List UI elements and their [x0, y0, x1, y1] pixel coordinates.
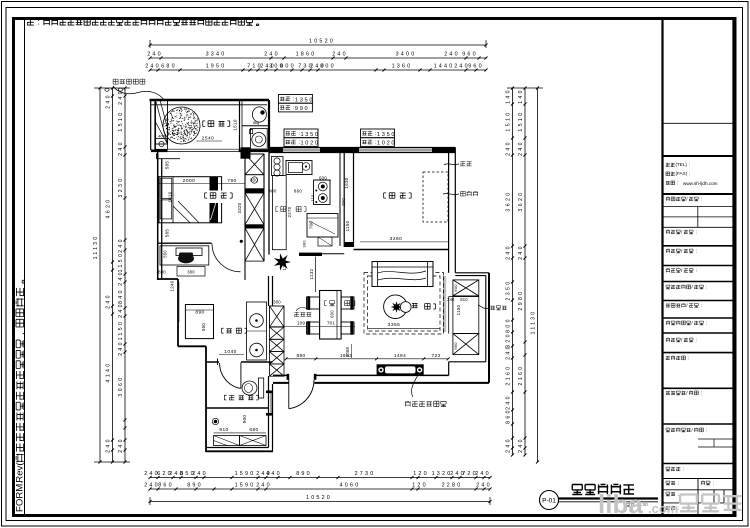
svg-text:11130: 11130: [531, 310, 537, 335]
svg-text:723: 723: [432, 353, 441, 359]
svg-text:860: 860: [294, 189, 302, 194]
svg-text:600: 600: [319, 176, 327, 181]
svg-text:910: 910: [219, 427, 228, 433]
svg-text:240: 240: [506, 344, 512, 360]
svg-text:585: 585: [165, 229, 170, 237]
svg-text:(FAX): (FAX): [675, 171, 687, 176]
svg-text:600: 600: [330, 310, 335, 318]
svg-text:800: 800: [280, 64, 296, 70]
svg-text:/: /: [681, 229, 683, 235]
svg-text:860: 860: [506, 408, 512, 424]
svg-text:3620: 3620: [506, 190, 512, 211]
svg-text:240: 240: [118, 270, 124, 286]
svg-text:109: 109: [297, 321, 305, 326]
svg-text:2270: 2270: [287, 206, 292, 217]
svg-text:701: 701: [327, 321, 335, 326]
svg-text:900: 900: [242, 415, 247, 424]
svg-text:/: /: [686, 196, 688, 202]
svg-text:2350: 2350: [506, 279, 512, 300]
svg-text:www.sh-ljdh.com: www.sh-ljdh.com: [683, 181, 718, 186]
svg-text:990: 990: [295, 106, 309, 112]
svg-text:1240: 1240: [170, 280, 175, 291]
svg-text:240: 240: [506, 140, 512, 156]
svg-text:1484: 1484: [394, 353, 406, 359]
svg-text:1630: 1630: [344, 177, 349, 188]
svg-text:950: 950: [201, 323, 206, 331]
svg-text:3355: 3355: [388, 322, 401, 328]
svg-text:240: 240: [476, 483, 492, 489]
svg-text:240: 240: [256, 483, 272, 489]
svg-text:860: 860: [158, 483, 174, 489]
svg-text:3400: 3400: [396, 52, 417, 58]
svg-text:890: 890: [187, 483, 203, 489]
svg-text:800: 800: [158, 270, 166, 275]
svg-text:2160: 2160: [506, 364, 512, 385]
svg-text:1950: 1950: [206, 64, 227, 70]
svg-text:120: 120: [412, 483, 428, 489]
svg-text:1440: 1440: [434, 64, 455, 70]
svg-text:240: 240: [264, 52, 280, 58]
svg-text:890: 890: [195, 310, 204, 316]
svg-text:4140: 4140: [106, 361, 112, 382]
svg-text:550: 550: [163, 250, 168, 258]
svg-text:1020: 1020: [301, 141, 320, 147]
svg-text:240: 240: [118, 340, 124, 356]
svg-text:3260: 3260: [390, 236, 403, 242]
svg-text:/: /: [681, 248, 683, 254]
svg-text:840: 840: [118, 288, 124, 304]
svg-text:3320: 3320: [237, 202, 242, 213]
svg-text:960: 960: [468, 64, 484, 70]
svg-text:240: 240: [506, 244, 512, 260]
svg-text:2980: 2980: [518, 289, 524, 310]
svg-text:1088: 1088: [345, 346, 350, 357]
svg-text:/: /: [691, 284, 693, 290]
svg-text:/: /: [686, 303, 688, 309]
svg-text:400: 400: [158, 134, 165, 139]
svg-text:890: 890: [297, 353, 306, 359]
svg-text:2160: 2160: [518, 364, 524, 385]
svg-text:1510: 1510: [118, 110, 124, 131]
svg-text:1510: 1510: [233, 119, 238, 131]
svg-text:1150: 1150: [345, 220, 350, 231]
svg-text:600: 600: [453, 284, 458, 292]
svg-text:240: 240: [118, 302, 124, 318]
svg-text:380: 380: [302, 240, 307, 248]
svg-text:240: 240: [106, 437, 112, 453]
svg-text:700: 700: [309, 221, 314, 229]
svg-text:800: 800: [320, 64, 336, 70]
svg-text:300: 300: [187, 270, 195, 275]
svg-text:440: 440: [266, 471, 282, 477]
svg-text:200: 200: [341, 198, 346, 206]
svg-text:3060: 3060: [118, 375, 124, 396]
svg-text:240: 240: [518, 437, 524, 453]
svg-text:240: 240: [118, 437, 124, 453]
svg-text:240: 240: [475, 471, 491, 477]
svg-text:240: 240: [118, 237, 124, 253]
svg-text:FORM.: FORM.: [15, 481, 26, 512]
svg-text:1860: 1860: [296, 52, 317, 58]
svg-text:4620: 4620: [106, 197, 112, 218]
svg-text:1150: 1150: [118, 320, 124, 341]
svg-text:(TEL): (TEL): [675, 162, 687, 167]
svg-text:1350: 1350: [295, 98, 314, 104]
svg-text:240: 240: [118, 140, 124, 156]
svg-text:8kg: 8kg: [253, 121, 259, 125]
svg-text:300: 300: [273, 300, 281, 305]
svg-text:810: 810: [460, 297, 468, 302]
svg-text:240: 240: [518, 244, 524, 260]
svg-text:240: 240: [444, 52, 460, 58]
svg-text:140: 140: [506, 88, 512, 104]
svg-text:120: 120: [413, 471, 429, 477]
svg-text:1510: 1510: [518, 110, 524, 131]
svg-text:/: /: [686, 390, 688, 396]
svg-text:240: 240: [106, 93, 112, 109]
svg-text:240: 240: [147, 52, 163, 58]
svg-text:/: /: [691, 427, 693, 433]
svg-text:3340: 3340: [206, 52, 227, 58]
svg-text:680: 680: [161, 64, 177, 70]
svg-text:660: 660: [453, 342, 458, 350]
svg-text:Rev(: Rev(: [15, 462, 26, 483]
svg-text:240: 240: [332, 52, 348, 58]
svg-text:240: 240: [506, 437, 512, 453]
svg-text:960: 960: [462, 52, 478, 58]
svg-text:800: 800: [506, 317, 512, 333]
svg-text:1040: 1040: [224, 349, 237, 355]
svg-text:1590: 1590: [235, 471, 256, 477]
svg-text:240: 240: [145, 64, 161, 70]
svg-text:liba: liba: [598, 489, 643, 519]
svg-text:1350: 1350: [301, 132, 320, 138]
svg-text:115: 115: [310, 194, 315, 202]
svg-text:680: 680: [249, 427, 258, 433]
svg-text:11130: 11130: [93, 235, 99, 260]
svg-text:10520: 10520: [309, 39, 335, 45]
svg-text:1132: 1132: [309, 268, 314, 279]
svg-text:400: 400: [268, 189, 276, 194]
svg-text:3620: 3620: [518, 190, 524, 211]
svg-text:140: 140: [518, 88, 524, 104]
svg-text:240: 240: [447, 297, 455, 302]
svg-text:1150: 1150: [456, 304, 461, 315]
svg-text:4060: 4060: [340, 483, 361, 489]
svg-text:240: 240: [506, 394, 512, 410]
svg-text:/: /: [681, 268, 683, 274]
svg-text:3230: 3230: [118, 176, 124, 197]
svg-text:P-01: P-01: [542, 498, 556, 505]
svg-text:890: 890: [296, 471, 312, 477]
svg-text:1360: 1360: [392, 64, 413, 70]
svg-text:/: /: [691, 320, 693, 326]
svg-text:2730: 2730: [355, 471, 376, 477]
svg-text:240: 240: [192, 471, 208, 477]
svg-text:2540: 2540: [202, 136, 215, 142]
svg-text:1510: 1510: [506, 110, 512, 131]
svg-text:/: /: [681, 337, 683, 343]
svg-text:1250: 1250: [282, 259, 287, 270]
svg-text:240: 240: [106, 293, 112, 309]
svg-text:10520: 10520: [306, 495, 332, 501]
svg-text:1350: 1350: [377, 132, 396, 138]
svg-text:1020: 1020: [377, 141, 396, 147]
svg-text:2000: 2000: [183, 178, 196, 184]
svg-text:1590: 1590: [235, 483, 256, 489]
svg-text:790: 790: [227, 178, 236, 184]
svg-text:585: 585: [165, 161, 170, 169]
svg-text:240: 240: [518, 140, 524, 156]
svg-text:.com: .com: [648, 501, 678, 516]
svg-text:1810: 1810: [168, 191, 173, 202]
svg-text:2280: 2280: [442, 483, 463, 489]
svg-text:1150: 1150: [118, 252, 124, 273]
